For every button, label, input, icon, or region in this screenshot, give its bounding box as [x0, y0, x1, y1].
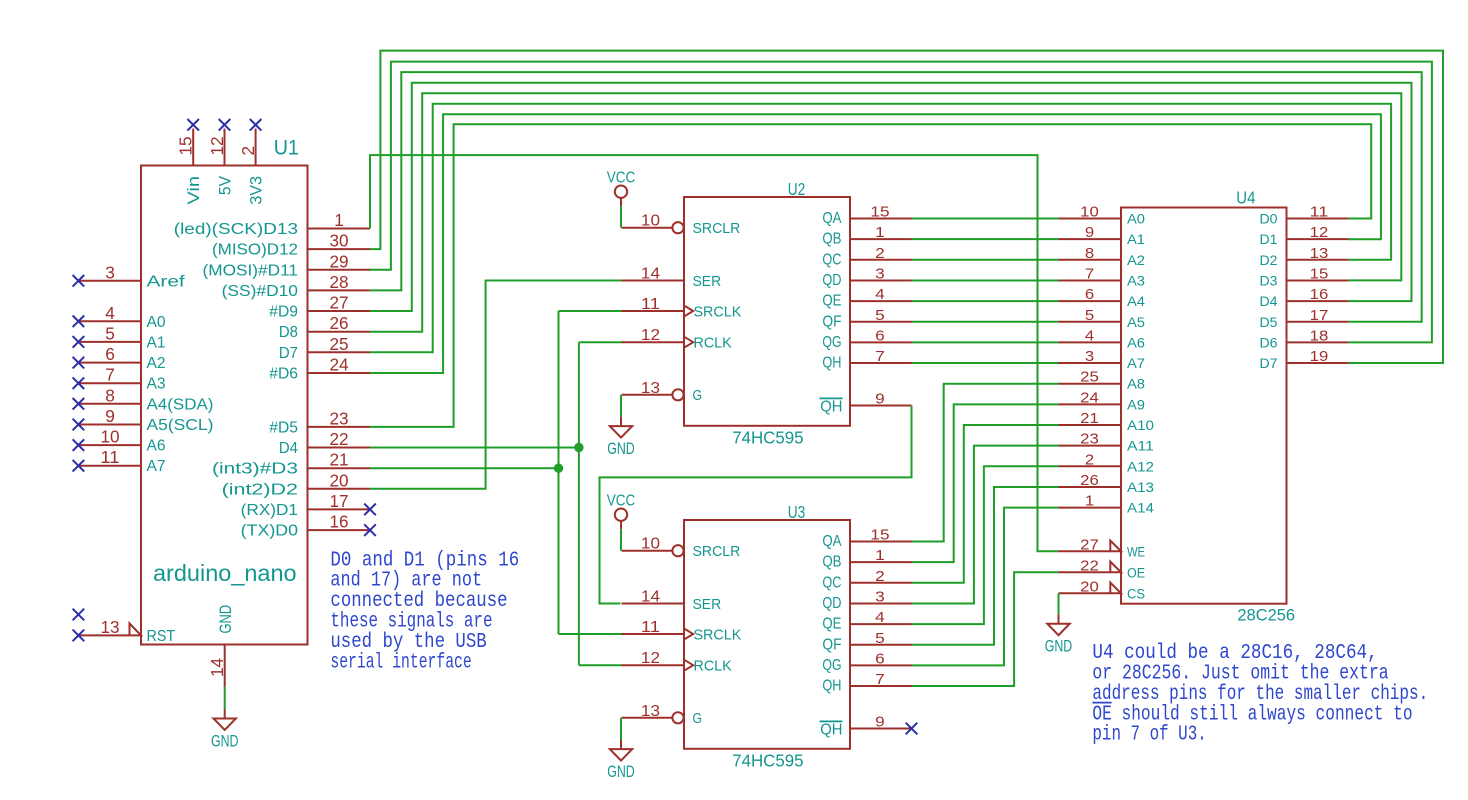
- svg-text:12: 12: [641, 327, 660, 344]
- svg-text:10: 10: [1080, 204, 1099, 221]
- svg-text:30: 30: [329, 231, 348, 251]
- svg-text:26: 26: [329, 313, 348, 333]
- svg-text:(TX)D0: (TX)D0: [241, 523, 299, 540]
- svg-text:QD: QD: [822, 272, 841, 289]
- svg-text:29: 29: [329, 251, 348, 271]
- svg-text:D6: D6: [1260, 335, 1278, 351]
- svg-text:13: 13: [1310, 245, 1329, 262]
- svg-text:17: 17: [329, 491, 348, 511]
- svg-text:QH: QH: [820, 399, 842, 416]
- svg-text:11: 11: [641, 619, 660, 636]
- svg-text:15: 15: [870, 204, 889, 221]
- svg-text:D1: D1: [1260, 232, 1278, 248]
- svg-text:20: 20: [1080, 578, 1099, 595]
- svg-text:1: 1: [875, 547, 885, 564]
- svg-text:#D5: #D5: [269, 419, 298, 436]
- svg-text:QH: QH: [820, 722, 842, 739]
- svg-text:GND: GND: [1045, 637, 1073, 656]
- svg-text:VCC: VCC: [607, 169, 636, 186]
- svg-text:16: 16: [329, 512, 348, 532]
- svg-text:21: 21: [1080, 410, 1099, 427]
- svg-text:(MOSI)#D11: (MOSI)#D11: [203, 262, 299, 279]
- svg-text:7: 7: [1085, 265, 1094, 282]
- svg-text:1: 1: [875, 224, 885, 241]
- svg-text:GND: GND: [607, 439, 635, 458]
- svg-text:Vin: Vin: [184, 176, 203, 205]
- svg-text:pin 7 of U3.: pin 7 of U3.: [1092, 724, 1206, 747]
- svg-text:9: 9: [1085, 224, 1094, 241]
- svg-text:serial interface: serial interface: [330, 651, 471, 674]
- svg-text:D4: D4: [279, 440, 298, 457]
- svg-text:14: 14: [641, 266, 661, 283]
- svg-text:QE: QE: [822, 293, 841, 310]
- svg-text:D4: D4: [1260, 294, 1278, 310]
- svg-text:CS: CS: [1127, 586, 1145, 602]
- svg-text:15: 15: [176, 136, 196, 155]
- svg-text:A5(SCL): A5(SCL): [147, 417, 214, 434]
- svg-text:16: 16: [1310, 286, 1329, 303]
- svg-text:A6: A6: [147, 438, 166, 455]
- svg-text:28C256: 28C256: [1237, 605, 1295, 624]
- svg-text:6: 6: [875, 650, 885, 667]
- svg-text:5: 5: [875, 307, 885, 324]
- svg-text:5: 5: [1085, 307, 1094, 324]
- svg-text:4: 4: [875, 609, 885, 626]
- svg-text:G: G: [693, 387, 703, 404]
- svg-text:15: 15: [1310, 265, 1329, 282]
- svg-text:QG: QG: [822, 334, 841, 351]
- svg-text:22: 22: [1080, 557, 1099, 574]
- svg-text:D7: D7: [279, 345, 298, 362]
- svg-text:27: 27: [329, 293, 348, 313]
- svg-text:QA: QA: [822, 533, 842, 550]
- svg-text:A7: A7: [1127, 356, 1145, 372]
- svg-text:Aref: Aref: [147, 273, 186, 290]
- svg-text:QC: QC: [822, 251, 841, 268]
- svg-text:27: 27: [1080, 536, 1099, 553]
- svg-text:RST: RST: [147, 628, 176, 645]
- svg-text:15: 15: [870, 527, 889, 544]
- svg-text:3: 3: [105, 262, 115, 282]
- svg-text:A9: A9: [1127, 397, 1145, 413]
- svg-text:QG: QG: [822, 657, 841, 674]
- svg-text:A13: A13: [1127, 480, 1154, 496]
- svg-text:12: 12: [1310, 224, 1329, 241]
- svg-text:(led)(SCK)D13: (led)(SCK)D13: [174, 221, 298, 238]
- svg-text:SRCLK: SRCLK: [694, 626, 742, 643]
- svg-text:2: 2: [875, 245, 885, 262]
- svg-text:D8: D8: [279, 324, 298, 341]
- svg-text:5: 5: [105, 323, 115, 343]
- svg-text:A7: A7: [147, 458, 166, 475]
- svg-text:(int2)D2: (int2)D2: [222, 481, 298, 498]
- svg-text:RCLK: RCLK: [694, 658, 732, 675]
- svg-text:12: 12: [641, 650, 660, 667]
- svg-text:1: 1: [1085, 493, 1094, 510]
- svg-text:10: 10: [641, 536, 661, 553]
- svg-text:A14: A14: [1127, 501, 1154, 517]
- svg-text:7: 7: [875, 671, 885, 688]
- svg-text:OE: OE: [1127, 565, 1145, 581]
- svg-text:D0: D0: [1260, 212, 1278, 228]
- svg-text:QH: QH: [822, 355, 841, 372]
- svg-text:#D6: #D6: [269, 366, 298, 383]
- svg-text:2: 2: [1085, 451, 1094, 468]
- svg-text:WE: WE: [1127, 544, 1145, 560]
- svg-text:QB: QB: [822, 231, 841, 248]
- svg-text:(int3)#D3: (int3)#D3: [212, 461, 298, 478]
- svg-text:A10: A10: [1127, 418, 1154, 434]
- svg-text:25: 25: [1080, 369, 1099, 386]
- svg-text:9: 9: [875, 391, 885, 408]
- svg-text:7: 7: [105, 365, 115, 385]
- svg-text:A6: A6: [1127, 335, 1145, 351]
- svg-text:21: 21: [329, 450, 348, 470]
- svg-text:28: 28: [329, 272, 348, 292]
- svg-text:23: 23: [1080, 431, 1099, 448]
- svg-text:SRCLR: SRCLR: [693, 220, 741, 237]
- svg-text:GND: GND: [211, 731, 239, 750]
- svg-text:3: 3: [875, 265, 885, 282]
- svg-text:QE: QE: [822, 616, 841, 633]
- svg-text:9: 9: [105, 406, 115, 426]
- svg-text:arduino_nano: arduino_nano: [153, 560, 297, 586]
- svg-text:4: 4: [105, 303, 115, 323]
- svg-text:A3: A3: [147, 376, 166, 393]
- svg-text:A1: A1: [147, 334, 166, 351]
- svg-text:6: 6: [105, 344, 115, 364]
- svg-text:U4: U4: [1236, 188, 1255, 208]
- svg-text:A0: A0: [1127, 212, 1145, 228]
- svg-text:6: 6: [1085, 286, 1094, 303]
- svg-text:QA: QA: [822, 210, 842, 227]
- svg-text:25: 25: [329, 334, 348, 354]
- svg-text:SRCLR: SRCLR: [693, 543, 741, 560]
- svg-text:14: 14: [641, 589, 661, 606]
- svg-text:9: 9: [875, 714, 885, 731]
- svg-text:11: 11: [100, 447, 119, 467]
- svg-text:A12: A12: [1127, 459, 1154, 475]
- svg-text:VCC: VCC: [607, 492, 636, 509]
- svg-text:RCLK: RCLK: [694, 335, 732, 352]
- svg-text:D2: D2: [1260, 253, 1278, 269]
- svg-text:74HC595: 74HC595: [732, 750, 803, 770]
- svg-text:D7: D7: [1260, 356, 1278, 372]
- svg-text:A0: A0: [147, 314, 166, 331]
- svg-text:7: 7: [875, 348, 885, 365]
- svg-text:5V: 5V: [215, 175, 234, 195]
- svg-text:74HC595: 74HC595: [732, 427, 803, 447]
- svg-text:13: 13: [641, 380, 660, 397]
- svg-text:3V3: 3V3: [246, 176, 265, 205]
- svg-text:#D9: #D9: [269, 304, 298, 321]
- svg-text:SRCLK: SRCLK: [694, 303, 742, 320]
- svg-text:A3: A3: [1127, 273, 1145, 289]
- svg-text:QH: QH: [822, 678, 841, 695]
- svg-text:3: 3: [1085, 348, 1094, 365]
- svg-text:10: 10: [641, 213, 661, 230]
- svg-text:4: 4: [1085, 327, 1094, 344]
- svg-text:A4(SDA): A4(SDA): [147, 396, 214, 413]
- svg-text:QD: QD: [822, 595, 841, 612]
- svg-text:8: 8: [105, 385, 115, 405]
- svg-text:19: 19: [1310, 348, 1329, 365]
- svg-text:18: 18: [1310, 327, 1329, 344]
- svg-text:U2: U2: [788, 179, 806, 199]
- svg-text:11: 11: [641, 296, 660, 313]
- svg-text:4: 4: [875, 286, 885, 303]
- svg-text:12: 12: [207, 136, 227, 155]
- svg-text:17: 17: [1310, 307, 1329, 324]
- svg-text:SER: SER: [693, 596, 722, 613]
- svg-text:6: 6: [875, 327, 885, 344]
- svg-text:13: 13: [100, 617, 119, 637]
- svg-text:2: 2: [238, 146, 258, 156]
- svg-text:SER: SER: [693, 273, 722, 290]
- svg-text:24: 24: [329, 355, 348, 375]
- svg-text:A5: A5: [1127, 315, 1145, 331]
- svg-text:G: G: [693, 710, 703, 727]
- svg-text:D3: D3: [1260, 273, 1278, 289]
- svg-text:1: 1: [334, 210, 344, 230]
- svg-text:20: 20: [329, 470, 348, 490]
- svg-text:(RX)D1: (RX)D1: [241, 502, 298, 519]
- svg-text:QF: QF: [822, 313, 841, 330]
- svg-text:A4: A4: [1127, 294, 1145, 310]
- svg-text:24: 24: [1080, 389, 1099, 406]
- svg-text:(MISO)D12: (MISO)D12: [212, 242, 298, 259]
- svg-text:14: 14: [207, 658, 227, 677]
- svg-text:11: 11: [1310, 204, 1329, 221]
- svg-text:8: 8: [1085, 245, 1094, 262]
- svg-text:U3: U3: [788, 502, 806, 522]
- svg-text:10: 10: [100, 427, 119, 447]
- svg-text:GND: GND: [216, 605, 235, 634]
- svg-text:A1: A1: [1127, 232, 1145, 248]
- svg-text:D5: D5: [1260, 315, 1278, 331]
- svg-text:23: 23: [329, 408, 348, 428]
- svg-text:A8: A8: [1127, 377, 1145, 393]
- svg-text:(SS)#D10: (SS)#D10: [222, 283, 299, 300]
- svg-text:A11: A11: [1127, 439, 1154, 455]
- svg-text:22: 22: [329, 429, 348, 449]
- svg-text:GND: GND: [607, 762, 635, 781]
- svg-text:QB: QB: [822, 554, 841, 571]
- svg-text:26: 26: [1080, 472, 1099, 489]
- svg-text:A2: A2: [1127, 253, 1145, 269]
- svg-text:QF: QF: [822, 636, 841, 653]
- svg-text:13: 13: [641, 703, 660, 720]
- svg-text:U1: U1: [274, 136, 299, 159]
- svg-text:3: 3: [875, 588, 885, 605]
- svg-text:2: 2: [875, 568, 885, 585]
- svg-text:QC: QC: [822, 574, 841, 591]
- svg-text:A2: A2: [147, 355, 166, 372]
- svg-text:5: 5: [875, 630, 885, 647]
